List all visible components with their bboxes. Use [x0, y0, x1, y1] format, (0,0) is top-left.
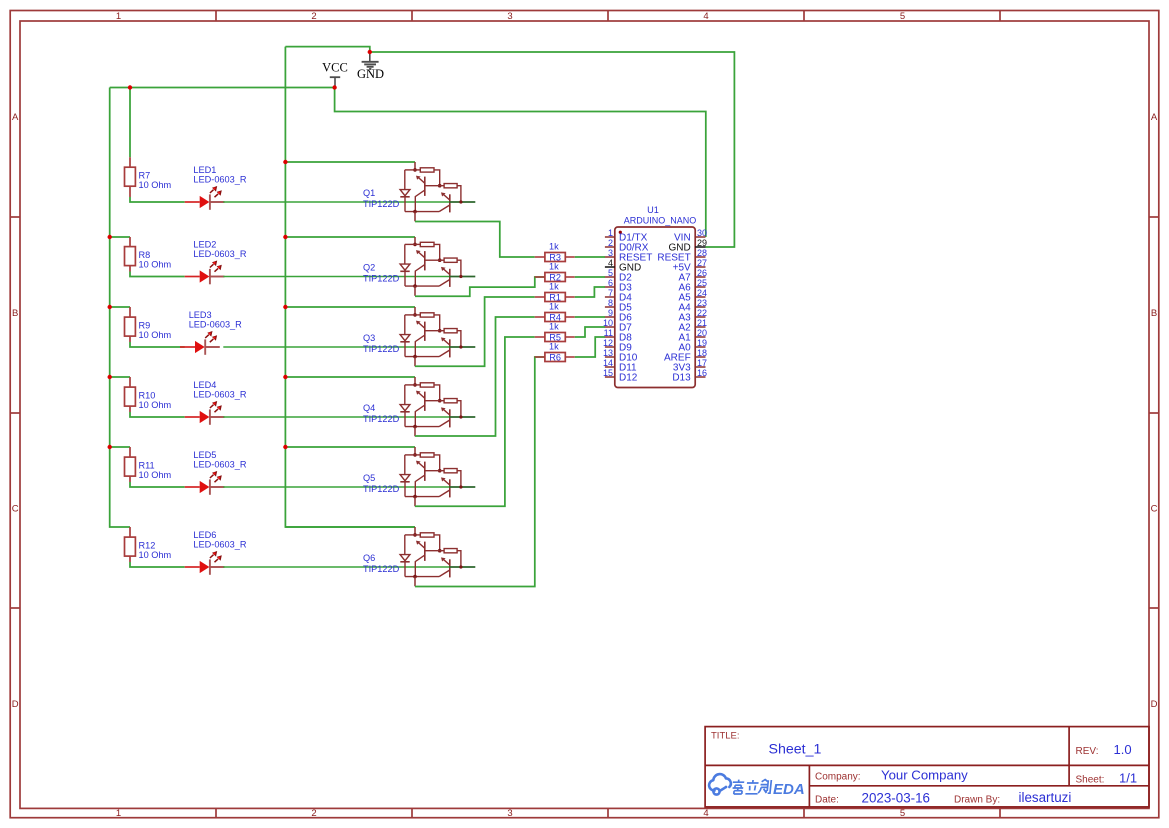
svg-text:2023-03-16: 2023-03-16	[862, 790, 931, 805]
wire R12 to LED6	[129, 556, 131, 562]
pin 12 D9	[605, 346, 615, 348]
pin 27 +5V	[695, 266, 705, 268]
node GND junction	[368, 50, 372, 54]
wire LED6 to Q6 base row	[223, 566, 449, 568]
svg-text:7: 7	[608, 288, 613, 298]
svg-text:R10: R10	[139, 391, 156, 401]
svg-text:Q3: Q3	[363, 333, 375, 343]
svg-text:1k: 1k	[549, 341, 559, 351]
svg-text:3: 3	[507, 11, 512, 22]
svg-text:C: C	[1151, 504, 1158, 515]
svg-text:8: 8	[608, 298, 613, 308]
wire R1 to pin6	[575, 287, 605, 297]
pin 4 GND	[605, 266, 615, 268]
wire feed channel 4	[110, 376, 130, 378]
pin 22 A3	[695, 316, 705, 318]
wire feed channel 3	[110, 306, 130, 308]
pin 3 RESET	[605, 256, 615, 258]
wire top pin feed Q4	[285, 376, 415, 378]
wire LED1 to Q1 base row	[223, 201, 449, 203]
resistor R11	[125, 457, 172, 480]
resistor R12	[125, 537, 172, 560]
svg-text:D13: D13	[672, 373, 691, 384]
svg-text:B: B	[1151, 308, 1157, 319]
wire R6 to pin11	[575, 337, 605, 357]
wire LED5 to Q5 base row	[223, 486, 449, 488]
wire Q2 base to resistor	[415, 277, 545, 296]
pin 28 RESET	[695, 256, 705, 258]
title block	[705, 727, 1149, 807]
svg-text:1: 1	[116, 11, 121, 22]
pin 8 D5	[605, 306, 615, 308]
svg-text:1k: 1k	[549, 301, 559, 311]
pin 30 VIN	[695, 236, 705, 238]
svg-text:LED-0603_R: LED-0603_R	[193, 249, 246, 259]
svg-text:3: 3	[608, 248, 613, 258]
svg-text:LED-0603_R: LED-0603_R	[193, 389, 246, 399]
svg-text:11: 11	[604, 328, 613, 338]
svg-text:2: 2	[608, 238, 613, 248]
EDA logo	[709, 774, 731, 794]
svg-text:2: 2	[311, 808, 316, 819]
LED LED3	[180, 310, 242, 355]
svg-text:Drawn By:: Drawn By:	[954, 794, 1000, 805]
svg-text:Sheet_1: Sheet_1	[769, 742, 822, 758]
wire R2 to pin5	[575, 276, 605, 278]
wire LED4 to Q4 base row	[223, 416, 449, 418]
pin 14 D11	[605, 366, 615, 368]
svg-text:TIP122D: TIP122D	[363, 344, 400, 354]
svg-text:A: A	[12, 112, 19, 123]
svg-text:27: 27	[697, 258, 707, 268]
wire feed channel 5	[110, 446, 130, 448]
svg-text:Sheet:: Sheet:	[1076, 775, 1105, 786]
svg-text:6: 6	[608, 278, 613, 288]
svg-text:10 Ohm: 10 Ohm	[139, 550, 172, 560]
transistor Q5 TIP122D	[363, 447, 475, 506]
svg-text:1k: 1k	[549, 261, 559, 271]
pin 25 A6	[695, 286, 705, 288]
wire feed channel 2	[110, 236, 130, 238]
pin 10 D7	[605, 326, 615, 328]
wire R3 to pin3	[575, 256, 605, 258]
transistor Q2 TIP122D	[363, 237, 475, 296]
svg-text:EDA: EDA	[773, 781, 805, 798]
svg-text:4: 4	[703, 808, 708, 819]
pin 16 D13	[695, 376, 705, 378]
svg-text:10 Ohm: 10 Ohm	[139, 180, 172, 190]
pin 18 AREF	[695, 356, 705, 358]
pin 9 D6	[605, 316, 615, 318]
pin 2 D0/RX	[605, 246, 615, 248]
resistor R7	[125, 167, 172, 190]
svg-text:10 Ohm: 10 Ohm	[139, 400, 172, 410]
wire R5 to pin10	[575, 327, 605, 337]
svg-text:24: 24	[697, 288, 707, 298]
resistor R8	[125, 247, 172, 270]
svg-text:TIP122D: TIP122D	[363, 199, 400, 209]
svg-text:1k: 1k	[549, 281, 559, 291]
svg-text:16: 16	[697, 368, 707, 378]
svg-text:B: B	[12, 308, 18, 319]
transistor Q3 TIP122D	[363, 307, 475, 366]
svg-text:5: 5	[900, 808, 905, 819]
wire R4 to pin9	[575, 316, 605, 318]
svg-text:1: 1	[116, 808, 121, 819]
svg-text:3: 3	[507, 808, 512, 819]
svg-text:1.0: 1.0	[1114, 742, 1132, 757]
pin 13 D10	[605, 356, 615, 358]
wire R7 to LED1	[129, 186, 131, 197]
svg-text:18: 18	[697, 348, 707, 358]
wire top pin feed Q5	[285, 446, 415, 448]
wire GND top run	[285, 47, 369, 52]
LED LED4	[185, 380, 247, 425]
pin 1 D1/TX	[605, 236, 615, 238]
resistor R10	[125, 387, 172, 410]
pin 23 A4	[695, 306, 705, 308]
title block texts	[711, 731, 1137, 806]
wire LED2 to Q2 base row	[223, 276, 449, 278]
svg-text:TIP122D: TIP122D	[363, 484, 400, 494]
svg-text:R6: R6	[549, 352, 561, 362]
svg-text:26: 26	[697, 268, 707, 278]
resistor R9	[125, 317, 172, 340]
svg-text:5: 5	[900, 11, 905, 22]
wire Q3 base to resistor	[415, 297, 535, 366]
wire top pin feed Q3	[285, 306, 415, 308]
svg-text:R11: R11	[139, 461, 155, 471]
svg-text:13: 13	[603, 348, 613, 358]
resistor R2 1k	[535, 261, 575, 282]
svg-text:10 Ohm: 10 Ohm	[139, 260, 172, 270]
resistor R3 1k	[535, 241, 575, 262]
svg-text:30: 30	[697, 228, 707, 238]
svg-text:2: 2	[311, 11, 316, 22]
svg-text:U1: U1	[647, 205, 659, 215]
svg-text:1k: 1k	[549, 321, 559, 331]
svg-text:Q5: Q5	[363, 473, 375, 483]
svg-text:4: 4	[703, 11, 708, 22]
wire Q1 base to resistor	[415, 222, 535, 258]
svg-text:Q1: Q1	[363, 188, 375, 198]
svg-text:D: D	[12, 699, 19, 710]
svg-text:D: D	[1151, 699, 1158, 710]
svg-text:Q4: Q4	[363, 403, 375, 413]
svg-text:R8: R8	[139, 250, 151, 260]
svg-text:20: 20	[697, 328, 707, 338]
wire feed channel 6	[129, 527, 131, 537]
svg-text:10 Ohm: 10 Ohm	[139, 330, 172, 340]
svg-text:22: 22	[697, 308, 707, 318]
svg-text:TIP122D: TIP122D	[363, 564, 400, 574]
svg-text:R7: R7	[139, 171, 151, 181]
LED LED6	[185, 530, 247, 575]
resistor R6 1k	[535, 341, 575, 362]
resistor R1 1k	[535, 281, 575, 302]
svg-text:25: 25	[697, 278, 707, 288]
svg-text:1: 1	[608, 228, 613, 238]
pin 20 A1	[695, 336, 705, 338]
wire top pin feed Q6	[285, 526, 415, 528]
wire feed channel 1	[129, 88, 131, 158]
wire left supply rail	[110, 88, 130, 528]
svg-text:10: 10	[603, 318, 613, 328]
svg-text:C: C	[12, 504, 19, 515]
pin 26 A7	[695, 276, 705, 278]
pin 15 D12	[605, 376, 615, 378]
pin 19 A0	[695, 346, 705, 348]
wire mid rail	[285, 47, 415, 527]
LED LED5	[185, 450, 247, 495]
pin 24 A5	[695, 296, 705, 298]
transistor Q1 TIP122D	[363, 162, 475, 221]
svg-text:D12: D12	[619, 373, 638, 384]
pin 5 D2	[605, 276, 615, 278]
pin 21 A2	[695, 326, 705, 328]
svg-text:LED-0603_R: LED-0603_R	[189, 319, 242, 329]
svg-text:23: 23	[697, 298, 707, 308]
wire R10 to LED4	[129, 406, 131, 412]
wire R11 to LED5	[129, 476, 131, 482]
svg-text:TIP122D: TIP122D	[363, 414, 400, 424]
wire top pin feed Q2	[285, 236, 415, 238]
op-amp U1 ARDUINO_NANO	[603, 205, 707, 388]
svg-text:1k: 1k	[549, 241, 559, 251]
transistor Q4 TIP122D	[363, 377, 475, 436]
svg-text:1/1: 1/1	[1119, 771, 1137, 786]
svg-text:REV:: REV:	[1076, 746, 1099, 757]
wire VCC rail	[110, 87, 335, 89]
wire LED3 to Q3 base row	[223, 346, 449, 348]
pin 11 D8	[605, 336, 615, 338]
svg-text:R9: R9	[139, 321, 151, 331]
GND ground symbol	[357, 52, 384, 81]
LED LED1	[185, 165, 247, 210]
svg-text:GND: GND	[357, 67, 384, 81]
svg-text:Q2: Q2	[363, 263, 375, 273]
wire top pin feed Q1	[285, 161, 415, 163]
resistor R4 1k	[535, 301, 575, 322]
pin 17 3V3	[695, 366, 705, 368]
VCC power symbol	[322, 60, 348, 87]
svg-text:Q6: Q6	[363, 553, 375, 563]
svg-text:TITLE:: TITLE:	[711, 731, 740, 742]
svg-text:29: 29	[697, 238, 707, 248]
svg-text:10 Ohm: 10 Ohm	[139, 470, 172, 480]
svg-text:Company:: Company:	[815, 772, 861, 783]
svg-text:5: 5	[608, 268, 613, 278]
svg-text:4: 4	[608, 258, 613, 268]
svg-text:LED-0603_R: LED-0603_R	[193, 459, 246, 469]
svg-text:9: 9	[608, 308, 613, 318]
svg-text:19: 19	[697, 338, 707, 348]
svg-text:LED-0603_R: LED-0603_R	[193, 539, 246, 549]
pin 29 GND	[695, 246, 705, 248]
svg-text:Date:: Date:	[815, 794, 839, 805]
svg-text:VCC: VCC	[322, 60, 348, 74]
pin 7 D4	[605, 296, 615, 298]
svg-text:ARDUINO_NANO: ARDUINO_NANO	[624, 216, 697, 226]
node VCC junction	[332, 85, 336, 89]
svg-text:14: 14	[603, 358, 613, 368]
wire Q4 base to resistor	[415, 317, 535, 436]
wire R8 to LED2	[129, 266, 131, 272]
svg-text:28: 28	[697, 248, 707, 258]
svg-text:A: A	[1151, 112, 1158, 123]
svg-text:21: 21	[697, 318, 707, 328]
svg-text:TIP122D: TIP122D	[363, 274, 400, 284]
wire Q5 base to resistor	[415, 337, 535, 506]
wire VCC to U1 VIN pin30	[335, 88, 706, 238]
wire Q6 base to resistor	[415, 357, 545, 587]
wire R9 to LED3	[129, 336, 131, 342]
svg-text:15: 15	[603, 368, 613, 378]
pin 6 D3	[605, 286, 615, 288]
svg-text:17: 17	[697, 358, 707, 368]
svg-text:12: 12	[603, 338, 613, 348]
resistor R5 1k	[535, 321, 575, 342]
wire GND to U1 pin29	[370, 52, 735, 247]
svg-text:R12: R12	[139, 541, 156, 551]
svg-text:LED-0603_R: LED-0603_R	[193, 174, 246, 184]
LED LED2	[185, 240, 247, 285]
svg-text:ilesartuzi: ilesartuzi	[1019, 790, 1072, 805]
transistor Q6 TIP122D	[363, 527, 475, 586]
svg-text:Your Company: Your Company	[881, 768, 968, 783]
